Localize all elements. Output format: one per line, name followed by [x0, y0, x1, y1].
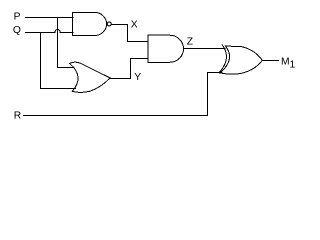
- svg-text:Z: Z: [187, 36, 193, 47]
- wire P branch to OR top input: [58, 18, 75, 68]
- wire X: NAND output to AND top input: [111, 25, 148, 42]
- wire Z: AND output to XOR input: [184, 48, 225, 50]
- svg-text:P: P: [14, 11, 21, 22]
- svg-text:Y: Y: [134, 72, 141, 83]
- wire P input: [25, 17, 73, 19]
- wire hop on Q over P-branch: [55, 29, 60, 32]
- wire XOR output to M1: [262, 60, 278, 62]
- wire Q branch to OR bottom input: [41, 33, 76, 89]
- and-gate U2 body: [148, 35, 184, 62]
- svg-text:Q: Q: [13, 25, 21, 36]
- wire Y: OR output to AND bottom input: [110, 59, 148, 79]
- wire Q input left segment: [25, 32, 55, 34]
- xor-gate U4 input arc: [220, 45, 227, 72]
- nand-gate U1 body: [72, 12, 106, 35]
- or-gate U3 body: [70, 62, 110, 92]
- svg-text:R: R: [14, 111, 21, 122]
- svg-text:X: X: [131, 20, 138, 31]
- nand-gate U1 output bubble: [107, 22, 111, 26]
- xor-gate U4 body: [220, 46, 262, 74]
- wire R input: [23, 73, 222, 116]
- svg-text:1: 1: [290, 60, 296, 71]
- svg-text:M: M: [281, 56, 290, 67]
- wire Q input right segment: [60, 32, 73, 34]
